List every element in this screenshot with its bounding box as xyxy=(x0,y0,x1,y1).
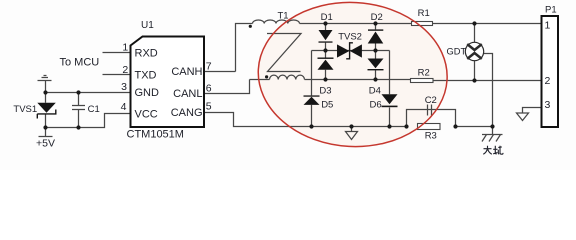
wire bridge left rail xyxy=(325,24,327,80)
TVS diode TVS2 bidirectional xyxy=(337,43,362,59)
svg-text:VCC: VCC xyxy=(135,109,158,121)
svg-text:T1: T1 xyxy=(278,10,289,21)
wire bridge right rail xyxy=(375,24,377,80)
node C1 bottom junction xyxy=(76,125,80,129)
node C2-R3 left junction xyxy=(404,124,408,128)
svg-text:RXD: RXD xyxy=(135,47,158,59)
wire CANH top line xyxy=(236,24,542,72)
svg-text:To MCU: To MCU xyxy=(60,56,100,68)
node GDT top junction xyxy=(472,21,476,25)
wire pin2 to MCU xyxy=(103,74,131,76)
svg-text:TVS1: TVS1 xyxy=(13,104,37,115)
capacitor C2 xyxy=(428,105,432,116)
svg-text:CANG: CANG xyxy=(171,107,203,119)
ground bridge bottom xyxy=(346,127,358,140)
wire C2 R3 block xyxy=(407,110,493,127)
IC U1 chip body xyxy=(131,37,205,128)
node D2 top junction xyxy=(373,21,377,25)
svg-text:CANH: CANH xyxy=(171,66,202,78)
ground signal top-left xyxy=(38,76,52,93)
svg-text:2: 2 xyxy=(122,64,128,76)
svg-text:GND: GND xyxy=(135,87,160,99)
wire pin7 to elbow xyxy=(204,71,236,73)
label 大地 earth text xyxy=(483,146,503,155)
svg-text:7: 7 xyxy=(206,61,212,73)
diode D5 xyxy=(304,95,320,105)
TVS diode TVS1 xyxy=(37,103,56,119)
node earth junction xyxy=(490,124,494,128)
red highlight ellipse fill xyxy=(254,0,451,152)
svg-text:6: 6 xyxy=(206,82,212,94)
resistor R3 xyxy=(418,124,441,130)
svg-text:1: 1 xyxy=(122,42,128,54)
wire pin3 GND line xyxy=(46,92,131,94)
diode D2 xyxy=(368,29,384,43)
svg-text:D6: D6 xyxy=(370,99,382,110)
svg-text:R1: R1 xyxy=(418,8,430,19)
svg-text:P1: P1 xyxy=(545,4,557,15)
resistor R1 xyxy=(412,22,433,26)
transformer T1 top winding xyxy=(253,20,300,24)
svg-text:4: 4 xyxy=(121,101,127,113)
node C2-R3 right junction xyxy=(453,124,457,128)
node TVS1 bottom junction xyxy=(43,125,47,129)
wire D6 rail xyxy=(389,51,391,127)
node D3 bottom junction xyxy=(323,77,327,81)
ground P1 pin3 xyxy=(517,113,529,121)
svg-text:D4: D4 xyxy=(369,85,381,96)
connector P1 body xyxy=(542,16,559,127)
svg-text:D2: D2 xyxy=(371,12,383,23)
wire P1 pin3 stub xyxy=(523,108,542,114)
svg-text:TVS2: TVS2 xyxy=(338,32,362,43)
node D1-D3 middle junction xyxy=(323,48,327,52)
wire GDT case to earth xyxy=(484,54,493,135)
svg-text:C2: C2 xyxy=(425,95,437,106)
diode D4 xyxy=(368,59,384,71)
power +5V bar xyxy=(39,136,53,138)
svg-text:2: 2 xyxy=(545,75,551,87)
wire pin6 to elbow xyxy=(204,80,250,94)
node TVS1 top junction xyxy=(43,90,47,94)
wire TVS1 rail xyxy=(45,93,47,137)
diode D1 xyxy=(319,30,333,43)
resistor R2 xyxy=(411,79,434,83)
wire CANL line xyxy=(250,80,542,81)
node D6 bottom junction xyxy=(387,124,391,128)
wire bridge middle branch xyxy=(312,50,390,52)
wire pin5 CANG line xyxy=(204,113,407,127)
diode D6 xyxy=(382,94,398,107)
svg-text:+5V: +5V xyxy=(36,138,55,150)
svg-text:3: 3 xyxy=(121,81,127,93)
svg-text:U1: U1 xyxy=(141,20,154,31)
transformer T1 core Z xyxy=(267,34,301,72)
earth ground 大地 symbol xyxy=(482,135,503,142)
svg-text:R2: R2 xyxy=(418,67,430,78)
svg-text:D5: D5 xyxy=(321,99,333,110)
wire pin4 VCC return xyxy=(46,114,131,128)
svg-text:C1: C1 xyxy=(88,104,100,115)
diode D3 xyxy=(318,58,334,70)
svg-text:GDT: GDT xyxy=(447,47,467,57)
node D1 top junction xyxy=(323,21,327,25)
polarity dot T1 top xyxy=(249,25,252,28)
svg-text:1: 1 xyxy=(545,19,551,31)
node C1 top junction xyxy=(76,90,80,94)
svg-text:D3: D3 xyxy=(319,85,331,96)
wire GDT vertical xyxy=(474,24,476,80)
gas discharge tube GDT xyxy=(465,42,483,60)
polarity dot T1 bottom xyxy=(265,75,268,78)
node GDT bottom junction xyxy=(472,78,476,82)
node ground stem junction xyxy=(349,124,353,128)
svg-text:CANL: CANL xyxy=(173,88,202,100)
svg-text:TXD: TXD xyxy=(135,70,157,82)
svg-text:D1: D1 xyxy=(321,12,333,23)
svg-text:5: 5 xyxy=(206,101,212,113)
transformer T1 bottom winding xyxy=(270,75,305,79)
node D4 bottom junction xyxy=(373,77,377,81)
svg-text:R3: R3 xyxy=(425,131,437,142)
node D2-D4 middle junction xyxy=(373,48,377,52)
svg-text:CTM1051M: CTM1051M xyxy=(127,129,184,141)
capacitor C1 xyxy=(72,93,85,128)
wire pin1 to MCU xyxy=(103,52,131,54)
wire D5 rail xyxy=(311,51,313,127)
node D5 bottom junction xyxy=(309,124,313,128)
red annotation ellipse xyxy=(254,0,451,152)
svg-text:3: 3 xyxy=(545,99,551,111)
